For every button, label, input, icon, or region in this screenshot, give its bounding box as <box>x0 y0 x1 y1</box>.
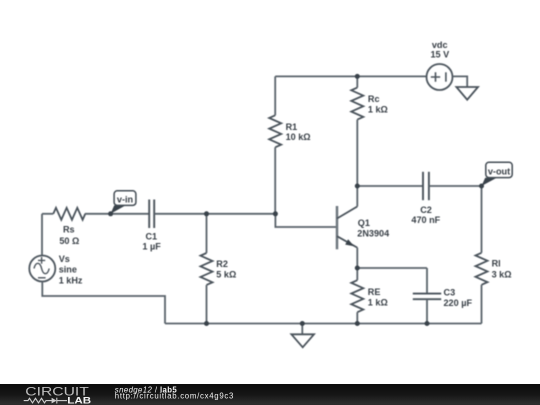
svg-text:Vs: Vs <box>59 254 70 264</box>
svg-text:10 kΩ: 10 kΩ <box>286 132 311 142</box>
resistor Rc <box>351 88 363 120</box>
wire: base jog <box>275 214 336 227</box>
wire: Rs to C1 <box>85 213 149 215</box>
wire: Rc top lead <box>356 76 358 87</box>
svg-text:C3: C3 <box>444 288 456 298</box>
wire: R2 top lead <box>206 214 208 253</box>
svg-text:sine: sine <box>59 264 77 274</box>
node v-out dot <box>479 184 484 189</box>
svg-text:1 kHz: 1 kHz <box>59 275 83 285</box>
resistor Rl <box>476 253 488 285</box>
wire: ground stem center <box>301 324 303 335</box>
svg-text:v-out: v-out <box>488 166 510 176</box>
resistor R2 <box>201 253 213 285</box>
wire: vdc to ground <box>453 76 468 87</box>
svg-text:470 nF: 470 nF <box>411 215 440 225</box>
source vdc <box>427 64 453 90</box>
svg-text:R1: R1 <box>286 122 298 132</box>
wire: R1 bottom lead <box>274 147 276 214</box>
wire: emitter node line <box>357 267 427 269</box>
svg-text:Rc: Rc <box>368 94 380 104</box>
svg-text:C2: C2 <box>420 205 432 215</box>
svg-text:LAB: LAB <box>67 396 91 405</box>
capacitor C2 <box>423 172 429 200</box>
logo squiggle wire <box>24 398 67 404</box>
node collector junction <box>355 184 360 189</box>
wire: C1 to base junction <box>154 213 275 215</box>
svg-text:Rs: Rs <box>63 225 75 235</box>
wire: left column to Vs <box>41 214 43 256</box>
wire: top rail <box>275 75 426 77</box>
svg-text:http://circuitlab.com/cx4g9c3: http://circuitlab.com/cx4g9c3 <box>115 392 234 401</box>
svg-text:RE: RE <box>368 287 381 297</box>
svg-text:1 kΩ: 1 kΩ <box>368 298 388 308</box>
wire: C3 top lead <box>426 268 428 294</box>
svg-text:1 µF: 1 µF <box>142 242 161 252</box>
node flag v-out <box>482 162 513 186</box>
wire: C2 to v-out <box>429 185 482 187</box>
svg-text:C1: C1 <box>145 232 157 242</box>
ground (vdc) <box>456 87 478 100</box>
wire: R2 bottom lead <box>206 285 208 324</box>
node R2 top junction <box>204 211 209 216</box>
svg-text:15 V: 15 V <box>430 49 449 59</box>
wire: R1 top lead <box>274 76 276 115</box>
wire: C3 bottom lead <box>426 299 428 323</box>
svg-text:3 kΩ: 3 kΩ <box>492 270 512 280</box>
svg-text:vdc: vdc <box>432 40 448 50</box>
resistor RE <box>351 280 363 312</box>
resistor Rs <box>53 208 85 220</box>
node emitter junction <box>355 266 360 271</box>
svg-text:R2: R2 <box>216 259 228 269</box>
node RE bottom junction <box>355 321 360 326</box>
svg-text:220 µF: 220 µF <box>444 298 473 308</box>
wire: bottom rail <box>165 323 482 325</box>
capacitor C1 <box>149 200 154 229</box>
node dots <box>108 74 484 326</box>
svg-text:v-in: v-in <box>117 195 134 205</box>
wire: RE top lead <box>356 268 358 280</box>
svg-text:2N3904: 2N3904 <box>357 228 390 238</box>
node top rail / Rc junction <box>355 74 360 79</box>
wire: Rl bottom lead <box>481 285 483 324</box>
source Vs <box>29 256 55 282</box>
node R1/base junction <box>273 211 278 216</box>
wire: collector node line <box>357 185 423 187</box>
svg-text:1 kΩ: 1 kΩ <box>368 105 388 115</box>
node C3 bottom junction <box>425 321 430 326</box>
svg-text:5 kΩ: 5 kΩ <box>216 269 236 279</box>
svg-text:Rl: Rl <box>492 258 501 268</box>
wire: Rc bottom lead <box>356 120 358 186</box>
transistor Q1 <box>337 206 357 249</box>
svg-text:50 Ω: 50 Ω <box>59 236 79 246</box>
wire: emitter vertical <box>356 248 358 268</box>
wire: RE bottom lead <box>356 312 358 323</box>
wire: input line left segment <box>42 213 53 215</box>
svg-text:Q1: Q1 <box>358 218 370 228</box>
node ground junction <box>300 321 305 326</box>
resistor R1 <box>269 115 281 147</box>
wire: Vs bottom return <box>42 282 165 324</box>
node flag v-in <box>111 191 136 214</box>
logo diode <box>52 398 57 404</box>
node R2 bottom junction <box>204 321 209 326</box>
ground (center) <box>291 334 314 347</box>
footer bar <box>0 384 540 405</box>
wire: collector vertical <box>356 186 358 207</box>
node v-in dot <box>108 211 113 216</box>
capacitor C3 <box>413 294 441 300</box>
wire: v-out column / Rl top lead <box>481 186 483 253</box>
